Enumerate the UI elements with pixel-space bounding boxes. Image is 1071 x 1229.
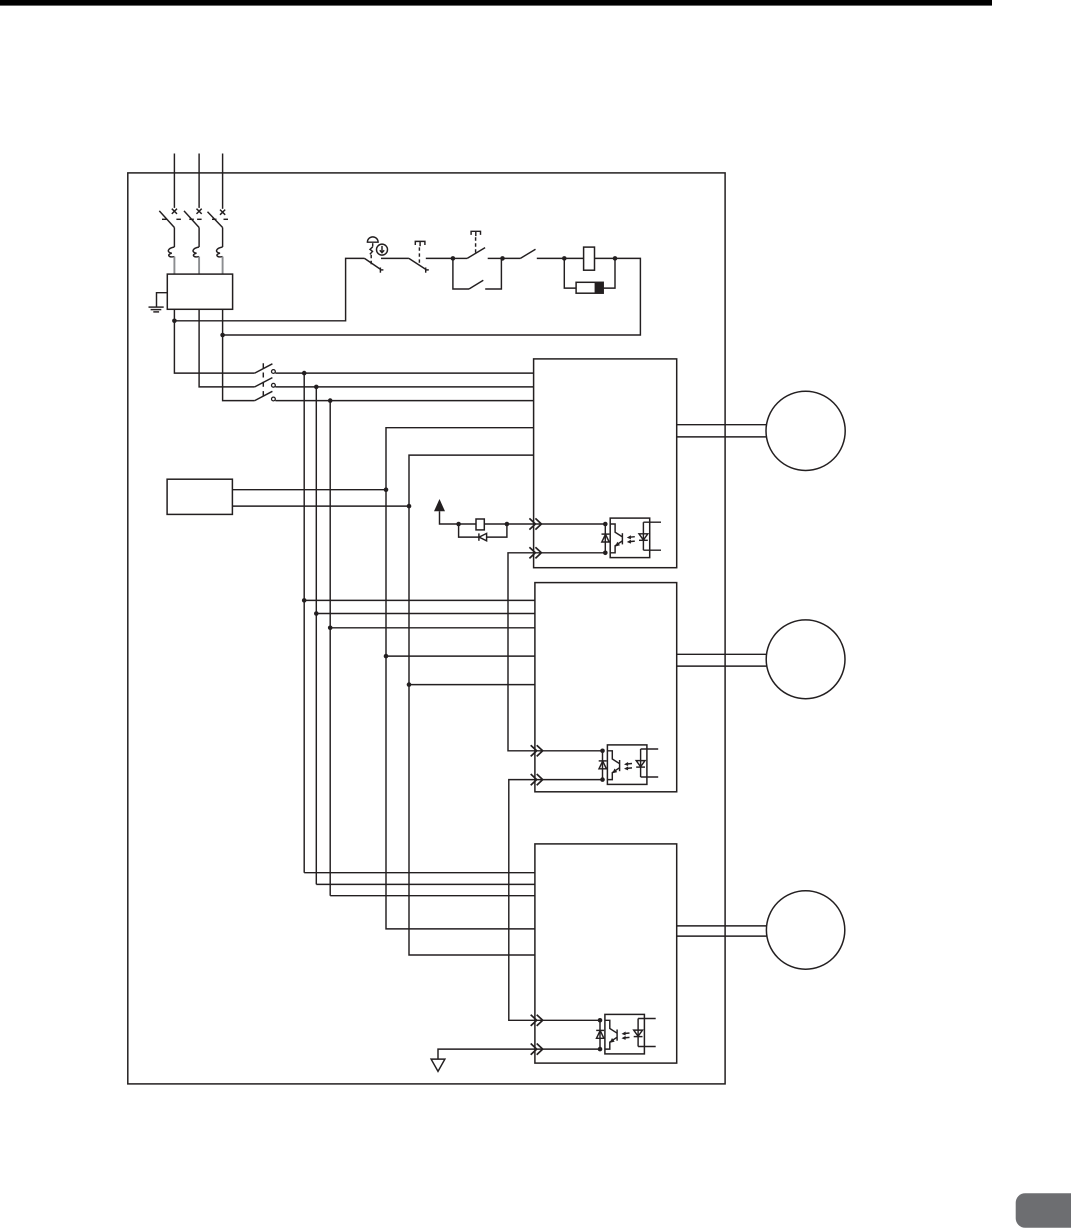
wire power bus 3 vertical (329, 401, 331, 896)
wire gray segment into filter (222, 257, 224, 275)
wire control return to L3 (223, 258, 641, 335)
relay coil MC (564, 247, 615, 270)
node bus E / inverter 2 tap (407, 682, 412, 687)
bypass diode branch (459, 524, 507, 541)
disconnect switch pole 3 (255, 391, 276, 401)
wire switch pole 3 to inverter 1 (275, 400, 533, 402)
wire phase L1 entry (173, 154, 175, 208)
wire motor 3 leads (677, 926, 767, 936)
optocoupler gate unit 1 (602, 518, 662, 558)
connector chevron inverter 3 upper (531, 1015, 543, 1026)
node power bus 2 tap (314, 385, 319, 390)
motor M2 (766, 620, 845, 699)
digital operator box (167, 479, 232, 514)
wire gray segment into filter (173, 257, 175, 275)
disconnect switch pole 2 (255, 378, 276, 388)
node L1/control tap (172, 319, 177, 324)
wire control bus E vertical (409, 455, 535, 955)
disconnect switch pole 1 (255, 364, 276, 374)
node rail C (562, 256, 567, 261)
circuit breaker Q3 pole (220, 210, 225, 215)
switch mechanical link (dashed) (262, 363, 264, 400)
turn-to-release symbol (circled arrow) (377, 244, 388, 255)
holding auxiliary contact branch (453, 258, 502, 289)
top black header bar (0, 0, 992, 6)
start button actuator (471, 231, 480, 252)
wire bus 3 to inverter 2 (330, 627, 535, 629)
wire phase L2 entry (198, 154, 200, 208)
control signal arrow (434, 499, 445, 511)
wire L2 filter to switch (199, 309, 255, 387)
motor M3 (766, 891, 844, 969)
wire switch pole 2 to inverter 1 (275, 386, 533, 388)
wire bus 2 to inverter 2 (316, 613, 535, 615)
node bus D / inverter 2 tap (384, 654, 389, 659)
node power bus 1 tap (302, 371, 307, 376)
enclosure border (128, 173, 725, 1084)
node fuse left (456, 522, 461, 527)
connector chevron inverter 2 lower (531, 774, 543, 785)
page corner tab (1016, 1193, 1071, 1228)
noise filter box (167, 274, 232, 309)
surge absorber branch (564, 258, 615, 293)
wire control feed from L1 (174, 258, 364, 320)
interlock contact (NO) (503, 249, 565, 258)
wire bus 2 to inverter 3 (316, 883, 535, 885)
wire bus 3 to inverter 3 (330, 895, 535, 897)
wire gray segment into filter (198, 257, 200, 275)
circuit breaker Q2 pole (197, 209, 202, 214)
wire inverter 2 lower input chain (509, 780, 603, 1021)
motor M1 (766, 391, 845, 470)
wire operator line 2 (232, 505, 409, 507)
node rail A (451, 256, 456, 261)
emergency stop mushroom head (367, 237, 378, 242)
e-stop operator linkage (dashed+twist) (370, 243, 373, 264)
wire L1 filter to switch (174, 309, 254, 373)
node rail D (613, 256, 618, 261)
wire operator line 1 (232, 489, 386, 491)
node L3/control return tap (220, 333, 225, 338)
wire rail segment (381, 257, 409, 259)
wire motor 2 leads (677, 654, 767, 666)
breaker thermal element (168, 247, 174, 257)
node operator line 2 junction (407, 504, 412, 509)
circuit breaker Q1 pole (172, 209, 177, 214)
optocoupler gate unit 3 (596, 1014, 656, 1053)
wire L3 filter to switch (223, 309, 255, 400)
stop button actuator (415, 241, 425, 265)
emergency stop contact (NC) (365, 258, 384, 272)
inverter block 2 (535, 583, 677, 792)
connector chevron inverter 2 upper (531, 745, 543, 756)
connector chevron inverter 3 lower (531, 1044, 543, 1055)
node rail B (500, 256, 505, 261)
node fuse right (505, 522, 510, 527)
earth terminal symbol (431, 1059, 445, 1071)
wire bus D to inverter 2 (386, 655, 535, 657)
breaker thermal element (193, 247, 199, 257)
wire bus 1 to inverter 3 (304, 872, 535, 874)
ground symbol (149, 307, 164, 312)
breaker thermal element (217, 247, 223, 257)
wire switch pole 1 to inverter 1 (275, 372, 533, 374)
node bus 2 / inverter 2 tap (314, 611, 319, 616)
wire bus 1 to inverter 2 (304, 599, 535, 601)
inverter block 1 (534, 359, 677, 568)
wire inverter 3 lower input from earth (438, 1049, 600, 1059)
node bus 3 / inverter 2 tap (328, 626, 333, 631)
wire rail segment (426, 257, 453, 259)
wire inverter 1 lower input chain (508, 553, 605, 751)
wire bus E to inverter 2 (409, 684, 535, 686)
wire motor 1 leads (677, 425, 767, 437)
node operator line 1 junction (384, 487, 389, 492)
inverter block 3 (535, 844, 677, 1063)
breaker mechanical link (dashed) (162, 218, 167, 220)
wire gate input to inverter 1 (507, 523, 605, 525)
node bus 1 / inverter 2 tap (302, 598, 307, 603)
node power bus 3 tap (328, 398, 333, 403)
wire power bus 2 vertical (315, 387, 317, 885)
wire filter ground lead (157, 293, 168, 307)
wire phase L3 entry (222, 154, 224, 209)
start pushbutton contact (NO) (453, 248, 503, 259)
optocoupler gate unit 2 (599, 745, 659, 785)
wire arrow to fuse circuit (440, 511, 459, 524)
stop pushbutton contact (NC) (409, 258, 429, 272)
connector chevron inverter 1 upper (529, 518, 541, 529)
connector chevron inverter 1 lower (529, 547, 541, 558)
fuse element (459, 519, 507, 530)
wire power bus 1 vertical (303, 373, 305, 873)
wire control bus D vertical (386, 428, 535, 929)
